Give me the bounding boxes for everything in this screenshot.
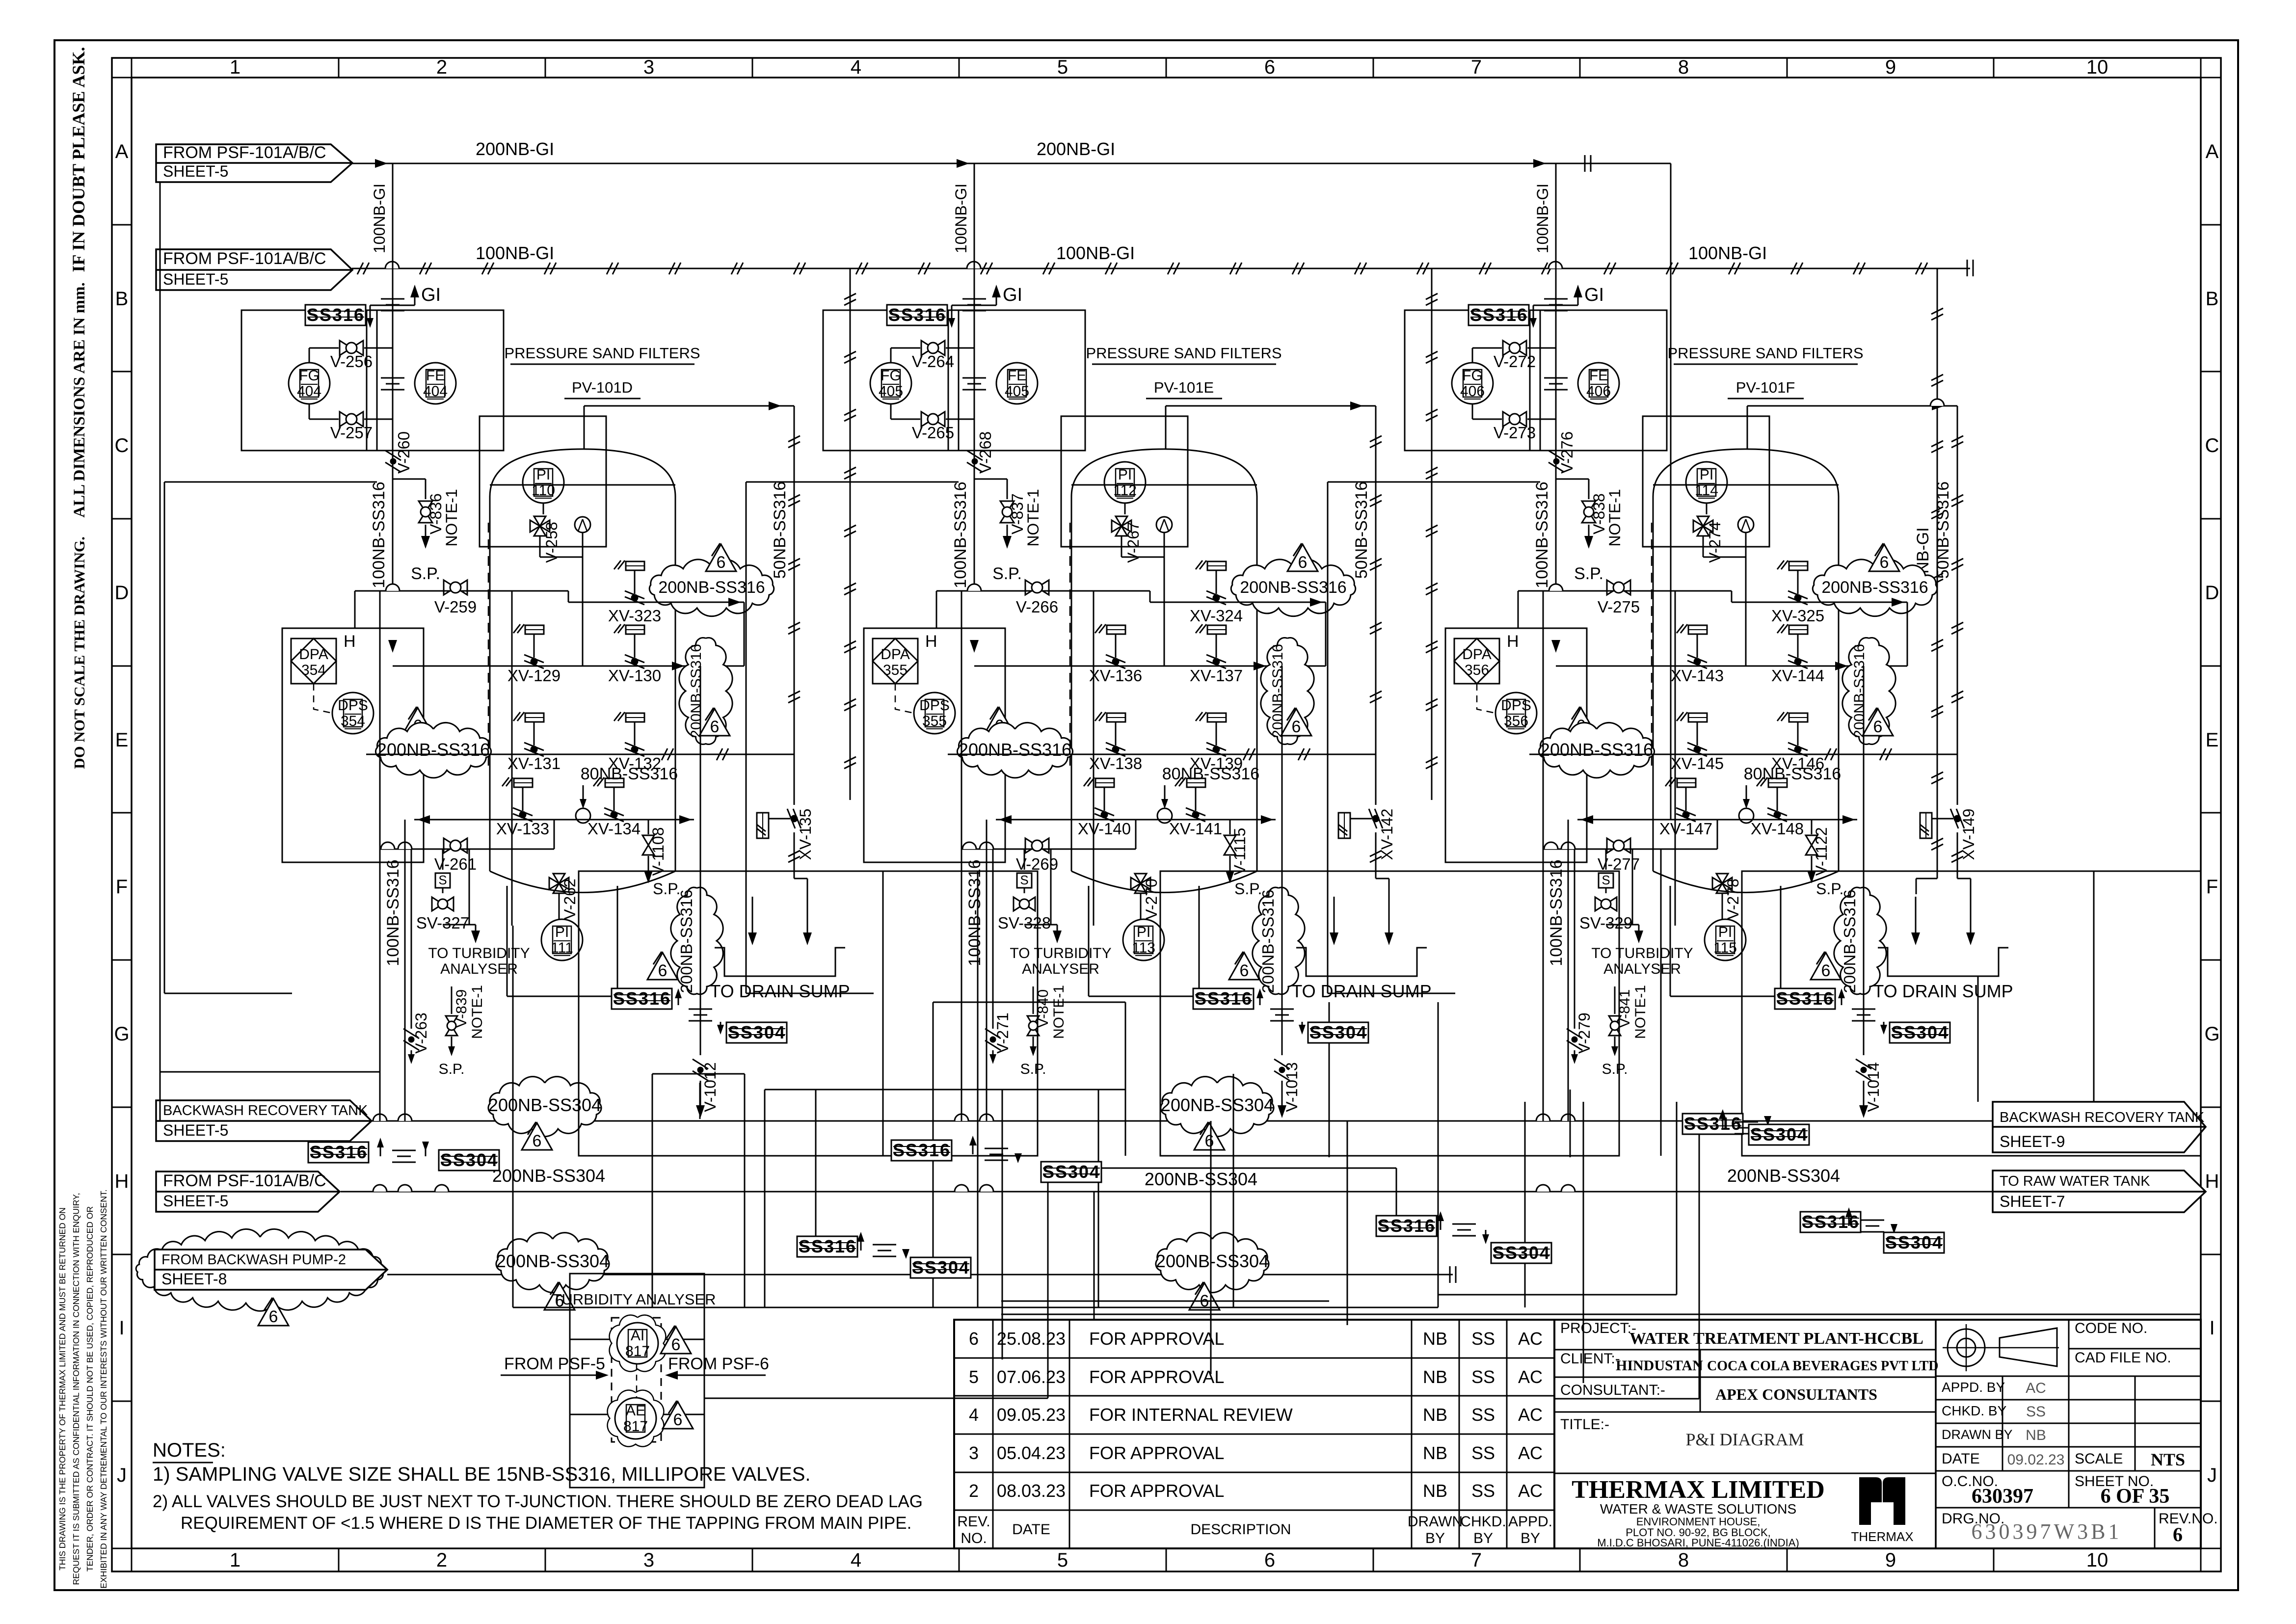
svg-text:V-269: V-269 bbox=[1016, 855, 1058, 873]
svg-text:25.08.23: 25.08.23 bbox=[997, 1329, 1066, 1349]
svg-text:355: 355 bbox=[883, 662, 908, 678]
svg-text:V-266: V-266 bbox=[1016, 598, 1058, 616]
svg-text:APPD.: APPD. bbox=[1508, 1514, 1552, 1530]
svg-text:1) SAMPLING VALVE SIZE SHA: 1) SAMPLING VALVE SIZE SHALL BE 15NB-SS3… bbox=[153, 1464, 811, 1485]
svg-text:XV-136: XV-136 bbox=[1089, 666, 1142, 685]
svg-text:630397: 630397 bbox=[1972, 1485, 2033, 1508]
svg-text:DRAWN BY: DRAWN BY bbox=[1942, 1427, 2013, 1442]
svg-text:H: H bbox=[1507, 632, 1519, 651]
svg-text:DRAWN: DRAWN bbox=[1408, 1514, 1463, 1530]
svg-text:SS316: SS316 bbox=[310, 1142, 368, 1162]
svg-text:SS316: SS316 bbox=[1776, 988, 1834, 1009]
svg-text:V-1108: V-1108 bbox=[649, 827, 667, 876]
svg-text:COCA COLA BEVERAGES PVT LTD: COCA COLA BEVERAGES PVT LTD bbox=[1707, 1358, 1938, 1374]
svg-text:6: 6 bbox=[1821, 961, 1831, 980]
svg-text:XV-324: XV-324 bbox=[1190, 607, 1243, 625]
svg-text:V-276: V-276 bbox=[1558, 431, 1576, 474]
svg-text:XV-147: XV-147 bbox=[1659, 820, 1712, 838]
svg-text:THIS DRAWING IS THE PROPERTY O: THIS DRAWING IS THE PROPERTY OF THERMAX … bbox=[57, 1207, 67, 1571]
svg-text:TO DRAIN SUMP: TO DRAIN SUMP bbox=[1291, 981, 1431, 1001]
svg-text:V-277: V-277 bbox=[1598, 855, 1640, 873]
svg-text:DPA: DPA bbox=[299, 646, 328, 663]
svg-text:100NB-SS316: 100NB-SS316 bbox=[951, 481, 970, 588]
svg-text:REV.NO.: REV.NO. bbox=[2159, 1511, 2218, 1527]
svg-text:PI: PI bbox=[555, 924, 569, 940]
svg-text:V-270: V-270 bbox=[1143, 879, 1160, 920]
svg-text:1: 1 bbox=[230, 1549, 240, 1571]
svg-text:BY: BY bbox=[1521, 1530, 1540, 1546]
svg-text:CODE NO.: CODE NO. bbox=[2075, 1320, 2147, 1336]
svg-text:V-1115: V-1115 bbox=[1231, 828, 1249, 876]
svg-text:J: J bbox=[2207, 1464, 2217, 1486]
svg-text:FG: FG bbox=[1462, 368, 1483, 384]
svg-text:PI: PI bbox=[1718, 924, 1732, 940]
svg-text:SS304: SS304 bbox=[1309, 1022, 1367, 1042]
svg-text:XV-135: XV-135 bbox=[797, 809, 814, 860]
svg-text:SS304: SS304 bbox=[1042, 1162, 1100, 1182]
svg-text:H: H bbox=[115, 1171, 129, 1192]
svg-text:WATER & WASTE SOLUTIONS: WATER & WASTE SOLUTIONS bbox=[1600, 1501, 1796, 1517]
svg-text:100NB-GI: 100NB-GI bbox=[1688, 243, 1767, 263]
svg-text:406: 406 bbox=[1460, 383, 1485, 399]
svg-text:PI: PI bbox=[1700, 467, 1713, 483]
svg-text:8: 8 bbox=[1678, 56, 1689, 78]
svg-text:6: 6 bbox=[1292, 718, 1301, 736]
svg-text:S: S bbox=[1020, 873, 1028, 887]
svg-text:09.05.23: 09.05.23 bbox=[997, 1405, 1066, 1425]
svg-text:REQUIREMENT OF <1.5 WHERE: REQUIREMENT OF <1.5 WHERE D IS THE DIAME… bbox=[181, 1514, 911, 1533]
svg-text:S.P.: S.P. bbox=[1234, 880, 1262, 898]
svg-text:V-271: V-271 bbox=[994, 1012, 1012, 1054]
svg-text:NB: NB bbox=[2026, 1427, 2046, 1443]
svg-text:FOR APPROVAL: FOR APPROVAL bbox=[1089, 1367, 1224, 1387]
svg-text:6: 6 bbox=[658, 961, 667, 980]
svg-text:V-841: V-841 bbox=[1617, 989, 1633, 1028]
svg-text:SS304: SS304 bbox=[1750, 1124, 1808, 1145]
svg-text:PV-101D: PV-101D bbox=[572, 379, 633, 396]
svg-text:1: 1 bbox=[230, 56, 240, 78]
svg-text:H: H bbox=[925, 632, 937, 651]
svg-text:NOTE-1: NOTE-1 bbox=[1051, 985, 1067, 1039]
svg-text:354: 354 bbox=[301, 662, 326, 678]
svg-text:DPS: DPS bbox=[338, 697, 368, 714]
svg-text:112: 112 bbox=[1113, 482, 1137, 499]
svg-text:200NB-GI: 200NB-GI bbox=[476, 139, 554, 159]
svg-text:10: 10 bbox=[2086, 1549, 2109, 1571]
svg-text:BACKWASH RECOVERY TANK: BACKWASH RECOVERY TANK bbox=[163, 1103, 368, 1118]
svg-text:SS304: SS304 bbox=[1493, 1243, 1550, 1263]
svg-text:111: 111 bbox=[551, 940, 573, 956]
svg-text:APPD. BY: APPD. BY bbox=[1942, 1380, 2005, 1395]
svg-text:80NB-SS316: 80NB-SS316 bbox=[1162, 765, 1259, 783]
svg-text:NO.: NO. bbox=[961, 1530, 987, 1546]
svg-text:THERMAX LIMITED: THERMAX LIMITED bbox=[1572, 1476, 1825, 1504]
svg-text:SS304: SS304 bbox=[728, 1022, 786, 1042]
svg-text:XV-149: XV-149 bbox=[1960, 809, 1977, 860]
svg-text:BY: BY bbox=[1473, 1530, 1493, 1546]
svg-text:TENDER, ORDER OR CONTRACT. IT: TENDER, ORDER OR CONTRACT. IT SHOULD NOT… bbox=[85, 1206, 95, 1571]
svg-text:2: 2 bbox=[436, 56, 447, 78]
svg-text:F: F bbox=[116, 876, 128, 898]
svg-text:SHEET-5: SHEET-5 bbox=[163, 1192, 228, 1210]
svg-text:NB: NB bbox=[1423, 1443, 1447, 1463]
svg-text:V-1012: V-1012 bbox=[701, 1062, 719, 1112]
svg-text:V-838: V-838 bbox=[1590, 493, 1608, 534]
svg-text:4: 4 bbox=[969, 1405, 979, 1425]
svg-text:FG: FG bbox=[881, 368, 901, 384]
svg-text:113: 113 bbox=[1132, 940, 1155, 956]
svg-text:NOTE-1: NOTE-1 bbox=[1024, 489, 1042, 546]
svg-text:6: 6 bbox=[671, 1335, 681, 1354]
svg-text:REQUEST IT IS SUBMITTED AS CON: REQUEST IT IS SUBMITTED AS CONFIDENTIAL … bbox=[71, 1193, 81, 1585]
svg-text:PI: PI bbox=[1137, 924, 1150, 940]
svg-text:V-1013: V-1013 bbox=[1283, 1062, 1301, 1112]
svg-text:TITLE:-: TITLE:- bbox=[1560, 1416, 1609, 1433]
svg-text:SS: SS bbox=[1471, 1367, 1495, 1387]
svg-text:630397W3B1: 630397W3B1 bbox=[1972, 1519, 2122, 1544]
svg-text:SV-327: SV-327 bbox=[416, 914, 469, 932]
svg-text:50NB-SS316: 50NB-SS316 bbox=[1934, 481, 1952, 579]
svg-text:200NB-SS304: 200NB-SS304 bbox=[1161, 1095, 1274, 1115]
svg-text:SS: SS bbox=[1471, 1481, 1495, 1501]
svg-text:200NB-SS304: 200NB-SS304 bbox=[492, 1166, 605, 1186]
svg-text:SS316: SS316 bbox=[1195, 988, 1253, 1009]
svg-text:TO TURBIDITY: TO TURBIDITY bbox=[1010, 945, 1111, 961]
svg-text:E: E bbox=[115, 729, 129, 751]
svg-text:200NB-SS316: 200NB-SS316 bbox=[959, 740, 1071, 760]
svg-text:115: 115 bbox=[1713, 940, 1737, 956]
svg-text:200NB-SS316: 200NB-SS316 bbox=[1259, 890, 1277, 993]
svg-text:NOTES:: NOTES: bbox=[153, 1439, 226, 1461]
svg-text:FROM PSF-101A/B/C: FROM PSF-101A/B/C bbox=[163, 1171, 326, 1190]
svg-text:FG: FG bbox=[299, 368, 320, 384]
svg-text:SS: SS bbox=[1471, 1405, 1495, 1425]
svg-text:G: G bbox=[114, 1023, 129, 1045]
svg-text:PRESSURE SAND FILTERS: PRESSURE SAND FILTERS bbox=[1086, 345, 1281, 362]
svg-text:S.P.: S.P. bbox=[1816, 880, 1843, 898]
svg-text:TO TURBIDITY: TO TURBIDITY bbox=[428, 945, 530, 961]
svg-text:SV-329: SV-329 bbox=[1579, 914, 1632, 932]
svg-text:4: 4 bbox=[851, 1549, 861, 1571]
svg-text:M.I.D.C BHOSARI, PUNE-411026: M.I.D.C BHOSARI, PUNE-411026.(INDIA) bbox=[1597, 1537, 1799, 1549]
svg-text:6: 6 bbox=[269, 1307, 278, 1326]
svg-text:200NB-SS316: 200NB-SS316 bbox=[1841, 890, 1859, 993]
svg-text:100NB-GI: 100NB-GI bbox=[1056, 243, 1135, 263]
svg-text:D: D bbox=[2205, 582, 2219, 604]
svg-text:FROM BACKWASH PUMP-2: FROM BACKWASH PUMP-2 bbox=[161, 1252, 346, 1268]
svg-text:SS316: SS316 bbox=[888, 305, 946, 325]
svg-text:TO DRAIN SUMP: TO DRAIN SUMP bbox=[710, 981, 850, 1001]
svg-text:4: 4 bbox=[851, 56, 861, 78]
svg-text:PV-101F: PV-101F bbox=[1736, 379, 1795, 396]
svg-text:SS316: SS316 bbox=[1378, 1216, 1436, 1236]
svg-text:80NB-SS316: 80NB-SS316 bbox=[581, 765, 678, 783]
svg-text:WATER TREATMENT PLANT-HCCBL: WATER TREATMENT PLANT-HCCBL bbox=[1629, 1330, 1923, 1348]
svg-text:110: 110 bbox=[532, 482, 555, 499]
svg-text:9: 9 bbox=[1885, 1549, 1896, 1571]
svg-text:ANALYSER: ANALYSER bbox=[1603, 961, 1681, 977]
svg-text:FROM PSF-101A/B/C: FROM PSF-101A/B/C bbox=[163, 143, 326, 162]
svg-text:S.P.: S.P. bbox=[1020, 1061, 1046, 1077]
svg-text:P&I DIAGRAM: P&I DIAGRAM bbox=[1685, 1430, 1804, 1449]
svg-text:BY: BY bbox=[1425, 1530, 1445, 1546]
svg-text:3: 3 bbox=[969, 1443, 979, 1463]
svg-text:S.P.: S.P. bbox=[653, 880, 680, 898]
svg-text:6 OF 35: 6 OF 35 bbox=[2101, 1485, 2170, 1508]
svg-text:CAD FILE NO.: CAD FILE NO. bbox=[2075, 1350, 2171, 1366]
svg-text:XV-137: XV-137 bbox=[1190, 666, 1243, 685]
svg-text:V-837: V-837 bbox=[1009, 493, 1026, 534]
svg-text:NOTE-1: NOTE-1 bbox=[1606, 489, 1624, 546]
svg-text:200NB-SS316: 200NB-SS316 bbox=[377, 740, 490, 760]
svg-text:DPA: DPA bbox=[881, 646, 909, 663]
svg-text:100NB-GI: 100NB-GI bbox=[371, 184, 388, 253]
svg-text:S.P.: S.P. bbox=[411, 564, 440, 583]
svg-text:V-260: V-260 bbox=[395, 431, 413, 474]
svg-text:9: 9 bbox=[1885, 56, 1896, 78]
svg-text:FE: FE bbox=[1008, 368, 1026, 384]
svg-text:PRESSURE SAND FILTERS: PRESSURE SAND FILTERS bbox=[1667, 345, 1863, 362]
svg-text:REV.: REV. bbox=[957, 1514, 990, 1530]
svg-text:6: 6 bbox=[969, 1329, 979, 1349]
svg-text:2: 2 bbox=[436, 1549, 447, 1571]
svg-text:FOR APPROVAL: FOR APPROVAL bbox=[1089, 1329, 1224, 1349]
svg-text:V-261: V-261 bbox=[434, 855, 477, 873]
svg-text:7: 7 bbox=[1471, 56, 1482, 78]
svg-text:6: 6 bbox=[1264, 1549, 1275, 1571]
svg-text:ALL DIMENSIONS ARE IN mm.: ALL DIMENSIONS ARE IN mm. bbox=[71, 282, 88, 518]
svg-text:100NB-GI: 100NB-GI bbox=[476, 243, 554, 263]
svg-text:CHKD.: CHKD. bbox=[1460, 1514, 1506, 1530]
svg-text:200NB-SS316: 200NB-SS316 bbox=[1540, 740, 1653, 760]
svg-text:V-836: V-836 bbox=[427, 493, 445, 534]
svg-text:NB: NB bbox=[1423, 1481, 1447, 1501]
svg-text:H: H bbox=[344, 632, 356, 651]
svg-text:5: 5 bbox=[969, 1367, 979, 1387]
svg-text:PV-101E: PV-101E bbox=[1154, 379, 1214, 396]
svg-text:50NB-SS316: 50NB-SS316 bbox=[771, 481, 789, 579]
svg-text:200NB-SS316: 200NB-SS316 bbox=[1851, 644, 1868, 738]
svg-text:DATE: DATE bbox=[1942, 1451, 1980, 1467]
svg-text:SCALE: SCALE bbox=[2075, 1451, 2123, 1467]
svg-text:09.02.23: 09.02.23 bbox=[2007, 1452, 2065, 1468]
svg-text:A: A bbox=[2206, 141, 2219, 162]
svg-text:S: S bbox=[438, 873, 447, 887]
svg-text:XV-138: XV-138 bbox=[1089, 754, 1142, 772]
svg-text:J: J bbox=[117, 1464, 127, 1486]
svg-text:XV-144: XV-144 bbox=[1771, 666, 1824, 685]
svg-text:IF IN DOUBT PLEASE ASK.: IF IN DOUBT PLEASE ASK. bbox=[69, 47, 88, 272]
svg-text:6: 6 bbox=[1880, 553, 1889, 572]
svg-text:V-262: V-262 bbox=[561, 879, 579, 920]
svg-text:H: H bbox=[2205, 1171, 2219, 1192]
svg-text:200NB-SS316: 200NB-SS316 bbox=[658, 578, 765, 597]
svg-text:6: 6 bbox=[673, 1411, 683, 1429]
svg-text:DPS: DPS bbox=[1501, 697, 1531, 714]
svg-text:V-259: V-259 bbox=[434, 598, 477, 616]
svg-text:XV-325: XV-325 bbox=[1771, 607, 1824, 625]
svg-text:I: I bbox=[2209, 1317, 2215, 1339]
svg-text:NB: NB bbox=[1423, 1405, 1447, 1425]
svg-text:GI: GI bbox=[1003, 285, 1022, 305]
svg-text:BACKWASH RECOVERY TANK: BACKWASH RECOVERY TANK bbox=[2000, 1110, 2205, 1125]
svg-text:817: 817 bbox=[625, 1343, 650, 1359]
svg-text:SHEET-7: SHEET-7 bbox=[2000, 1193, 2065, 1210]
svg-text:SS304: SS304 bbox=[440, 1150, 498, 1170]
svg-text:ANALYSER: ANALYSER bbox=[1022, 961, 1099, 977]
svg-text:SHEET-5: SHEET-5 bbox=[163, 162, 228, 180]
svg-text:HINDUSTAN: HINDUSTAN bbox=[1616, 1358, 1703, 1374]
svg-text:200NB-SS316: 200NB-SS316 bbox=[688, 644, 704, 738]
svg-text:XV-145: XV-145 bbox=[1671, 754, 1724, 772]
svg-text:200NB-SS316: 200NB-SS316 bbox=[1821, 578, 1928, 597]
svg-text:6: 6 bbox=[1873, 718, 1883, 736]
svg-text:FROM PSF-5: FROM PSF-5 bbox=[504, 1355, 605, 1373]
svg-text:FOR INTERNAL REVIEW: FOR INTERNAL REVIEW bbox=[1089, 1405, 1293, 1425]
svg-text:EXHIBITED IN ANY WAY DETREMENT: EXHIBITED IN ANY WAY DETREMENTAL TO OUR … bbox=[99, 1189, 108, 1588]
svg-text:405: 405 bbox=[1005, 383, 1029, 399]
svg-text:SS316: SS316 bbox=[799, 1236, 856, 1256]
svg-text:TO RAW WATER TANK: TO RAW WATER TANK bbox=[2000, 1173, 2150, 1189]
svg-text:50NB-SS316: 50NB-SS316 bbox=[1352, 481, 1371, 579]
svg-text:200NB-SS304: 200NB-SS304 bbox=[1145, 1169, 1257, 1189]
svg-text:10: 10 bbox=[2086, 56, 2109, 78]
svg-text:PI: PI bbox=[1118, 467, 1132, 483]
svg-text:S.P.: S.P. bbox=[1574, 564, 1603, 583]
svg-text:406: 406 bbox=[1586, 383, 1611, 399]
svg-text:DPS: DPS bbox=[919, 697, 950, 714]
svg-text:200NB-SS304: 200NB-SS304 bbox=[1156, 1251, 1269, 1271]
svg-text:GI: GI bbox=[421, 285, 441, 305]
svg-text:SHEET-5: SHEET-5 bbox=[163, 1121, 228, 1139]
svg-text:SHEET-8: SHEET-8 bbox=[161, 1270, 227, 1288]
svg-text:SS316: SS316 bbox=[307, 305, 365, 325]
svg-text:G: G bbox=[2204, 1023, 2219, 1045]
svg-text:SV-328: SV-328 bbox=[998, 914, 1051, 932]
svg-text:6: 6 bbox=[710, 718, 720, 736]
svg-text:6: 6 bbox=[1205, 1132, 1214, 1150]
svg-text:ANALYSER: ANALYSER bbox=[440, 961, 518, 977]
svg-text:XV-131: XV-131 bbox=[507, 754, 561, 772]
svg-text:B: B bbox=[2206, 288, 2219, 310]
svg-text:200NB-SS304: 200NB-SS304 bbox=[1727, 1166, 1840, 1186]
svg-text:FOR APPROVAL: FOR APPROVAL bbox=[1089, 1481, 1224, 1501]
svg-text:SHEET-9: SHEET-9 bbox=[2000, 1133, 2065, 1150]
svg-text:DESCRIPTION: DESCRIPTION bbox=[1190, 1521, 1291, 1538]
svg-text:S.P.: S.P. bbox=[1602, 1061, 1628, 1077]
svg-text:AI: AI bbox=[631, 1328, 644, 1344]
svg-text:356: 356 bbox=[1504, 713, 1528, 729]
svg-text:AC: AC bbox=[1518, 1329, 1543, 1349]
svg-text:V-279: V-279 bbox=[1575, 1012, 1593, 1054]
svg-text:NB: NB bbox=[1423, 1367, 1447, 1387]
svg-text:PI: PI bbox=[536, 467, 550, 483]
svg-text:NB: NB bbox=[1423, 1329, 1447, 1349]
svg-text:FOR APPROVAL: FOR APPROVAL bbox=[1089, 1443, 1224, 1463]
svg-text:5: 5 bbox=[1057, 56, 1068, 78]
svg-text:E: E bbox=[2206, 729, 2219, 751]
svg-text:200NB-SS316: 200NB-SS316 bbox=[1240, 578, 1346, 597]
svg-text:XV-133: XV-133 bbox=[496, 820, 549, 838]
svg-text:100NB-GI: 100NB-GI bbox=[952, 184, 970, 253]
svg-text:114: 114 bbox=[1695, 482, 1718, 499]
svg-text:AC: AC bbox=[1518, 1481, 1543, 1501]
svg-text:NOTE-1: NOTE-1 bbox=[469, 985, 485, 1039]
svg-text:6: 6 bbox=[717, 553, 726, 572]
svg-text:S: S bbox=[1602, 873, 1610, 887]
svg-text:AC: AC bbox=[1518, 1367, 1543, 1387]
svg-text:CONSULTANT:-: CONSULTANT:- bbox=[1560, 1382, 1665, 1398]
svg-text:200NB-SS316: 200NB-SS316 bbox=[677, 890, 695, 993]
svg-text:SS304: SS304 bbox=[912, 1257, 970, 1278]
svg-text:TO DRAIN SUMP: TO DRAIN SUMP bbox=[1873, 981, 2013, 1001]
svg-text:FE: FE bbox=[1589, 368, 1608, 384]
svg-text:C: C bbox=[115, 435, 129, 456]
svg-text:AE: AE bbox=[626, 1403, 645, 1419]
svg-text:GI: GI bbox=[1584, 285, 1604, 305]
svg-text:A: A bbox=[115, 141, 129, 162]
svg-text:817: 817 bbox=[623, 1418, 648, 1435]
svg-text:S.P.: S.P. bbox=[439, 1061, 465, 1077]
svg-text:SS: SS bbox=[1471, 1443, 1495, 1463]
svg-text:5: 5 bbox=[1057, 1549, 1068, 1571]
svg-text:6: 6 bbox=[2173, 1523, 2183, 1545]
svg-text:THERMAX: THERMAX bbox=[1851, 1529, 1913, 1544]
svg-text:FROM PSF-101A/B/C: FROM PSF-101A/B/C bbox=[163, 249, 326, 268]
svg-text:SS316: SS316 bbox=[1470, 305, 1528, 325]
svg-text:FE: FE bbox=[426, 368, 445, 384]
svg-text:V-263: V-263 bbox=[412, 1012, 430, 1054]
svg-text:V-839: V-839 bbox=[454, 989, 470, 1028]
svg-text:AC: AC bbox=[1518, 1405, 1543, 1425]
svg-text:DPA: DPA bbox=[1462, 646, 1491, 663]
svg-text:100NB-GI: 100NB-GI bbox=[1534, 184, 1551, 253]
svg-text:07.06.23: 07.06.23 bbox=[997, 1367, 1066, 1387]
svg-text:SS316: SS316 bbox=[893, 1140, 951, 1160]
svg-text:05.04.23: 05.04.23 bbox=[997, 1443, 1066, 1463]
svg-text:V-1122: V-1122 bbox=[1813, 827, 1830, 876]
svg-text:404: 404 bbox=[423, 383, 448, 399]
svg-text:SHEET-5: SHEET-5 bbox=[163, 270, 228, 288]
svg-text:100NB-SS316: 100NB-SS316 bbox=[965, 859, 984, 966]
svg-text:08.03.23: 08.03.23 bbox=[997, 1481, 1066, 1501]
svg-text:6: 6 bbox=[1264, 56, 1275, 78]
svg-text:355: 355 bbox=[922, 713, 947, 729]
svg-text:AC: AC bbox=[2026, 1380, 2046, 1396]
svg-text:V-840: V-840 bbox=[1035, 989, 1051, 1028]
svg-text:PRESSURE SAND FILTERS: PRESSURE SAND FILTERS bbox=[504, 345, 700, 362]
svg-text:XV-130: XV-130 bbox=[608, 666, 661, 685]
svg-text:6: 6 bbox=[1240, 961, 1249, 980]
svg-text:7: 7 bbox=[1471, 1549, 1482, 1571]
svg-text:NOTE-1: NOTE-1 bbox=[1632, 985, 1649, 1039]
svg-text:B: B bbox=[115, 288, 129, 310]
svg-text:DO NOT SCALE THE DRAWING.: DO NOT SCALE THE DRAWING. bbox=[71, 536, 88, 769]
svg-text:XV-141: XV-141 bbox=[1169, 820, 1222, 838]
svg-text:DATE: DATE bbox=[1012, 1521, 1050, 1538]
svg-text:V-1014: V-1014 bbox=[1865, 1062, 1882, 1112]
svg-text:2) ALL VALVES SHOULD BE J: 2) ALL VALVES SHOULD BE JUST NEXT TO T-J… bbox=[153, 1492, 923, 1511]
svg-text:XV-148: XV-148 bbox=[1751, 820, 1804, 838]
svg-text:SS304: SS304 bbox=[1891, 1022, 1949, 1042]
svg-text:SS: SS bbox=[2026, 1404, 2046, 1420]
svg-text:NTS: NTS bbox=[2151, 1450, 2185, 1469]
svg-text:D: D bbox=[115, 582, 129, 604]
svg-text:XV-323: XV-323 bbox=[608, 607, 661, 625]
svg-text:100NB-SS316: 100NB-SS316 bbox=[384, 859, 402, 966]
svg-text:200NB-SS304: 200NB-SS304 bbox=[488, 1095, 601, 1115]
svg-text:SS316: SS316 bbox=[1684, 1114, 1742, 1134]
